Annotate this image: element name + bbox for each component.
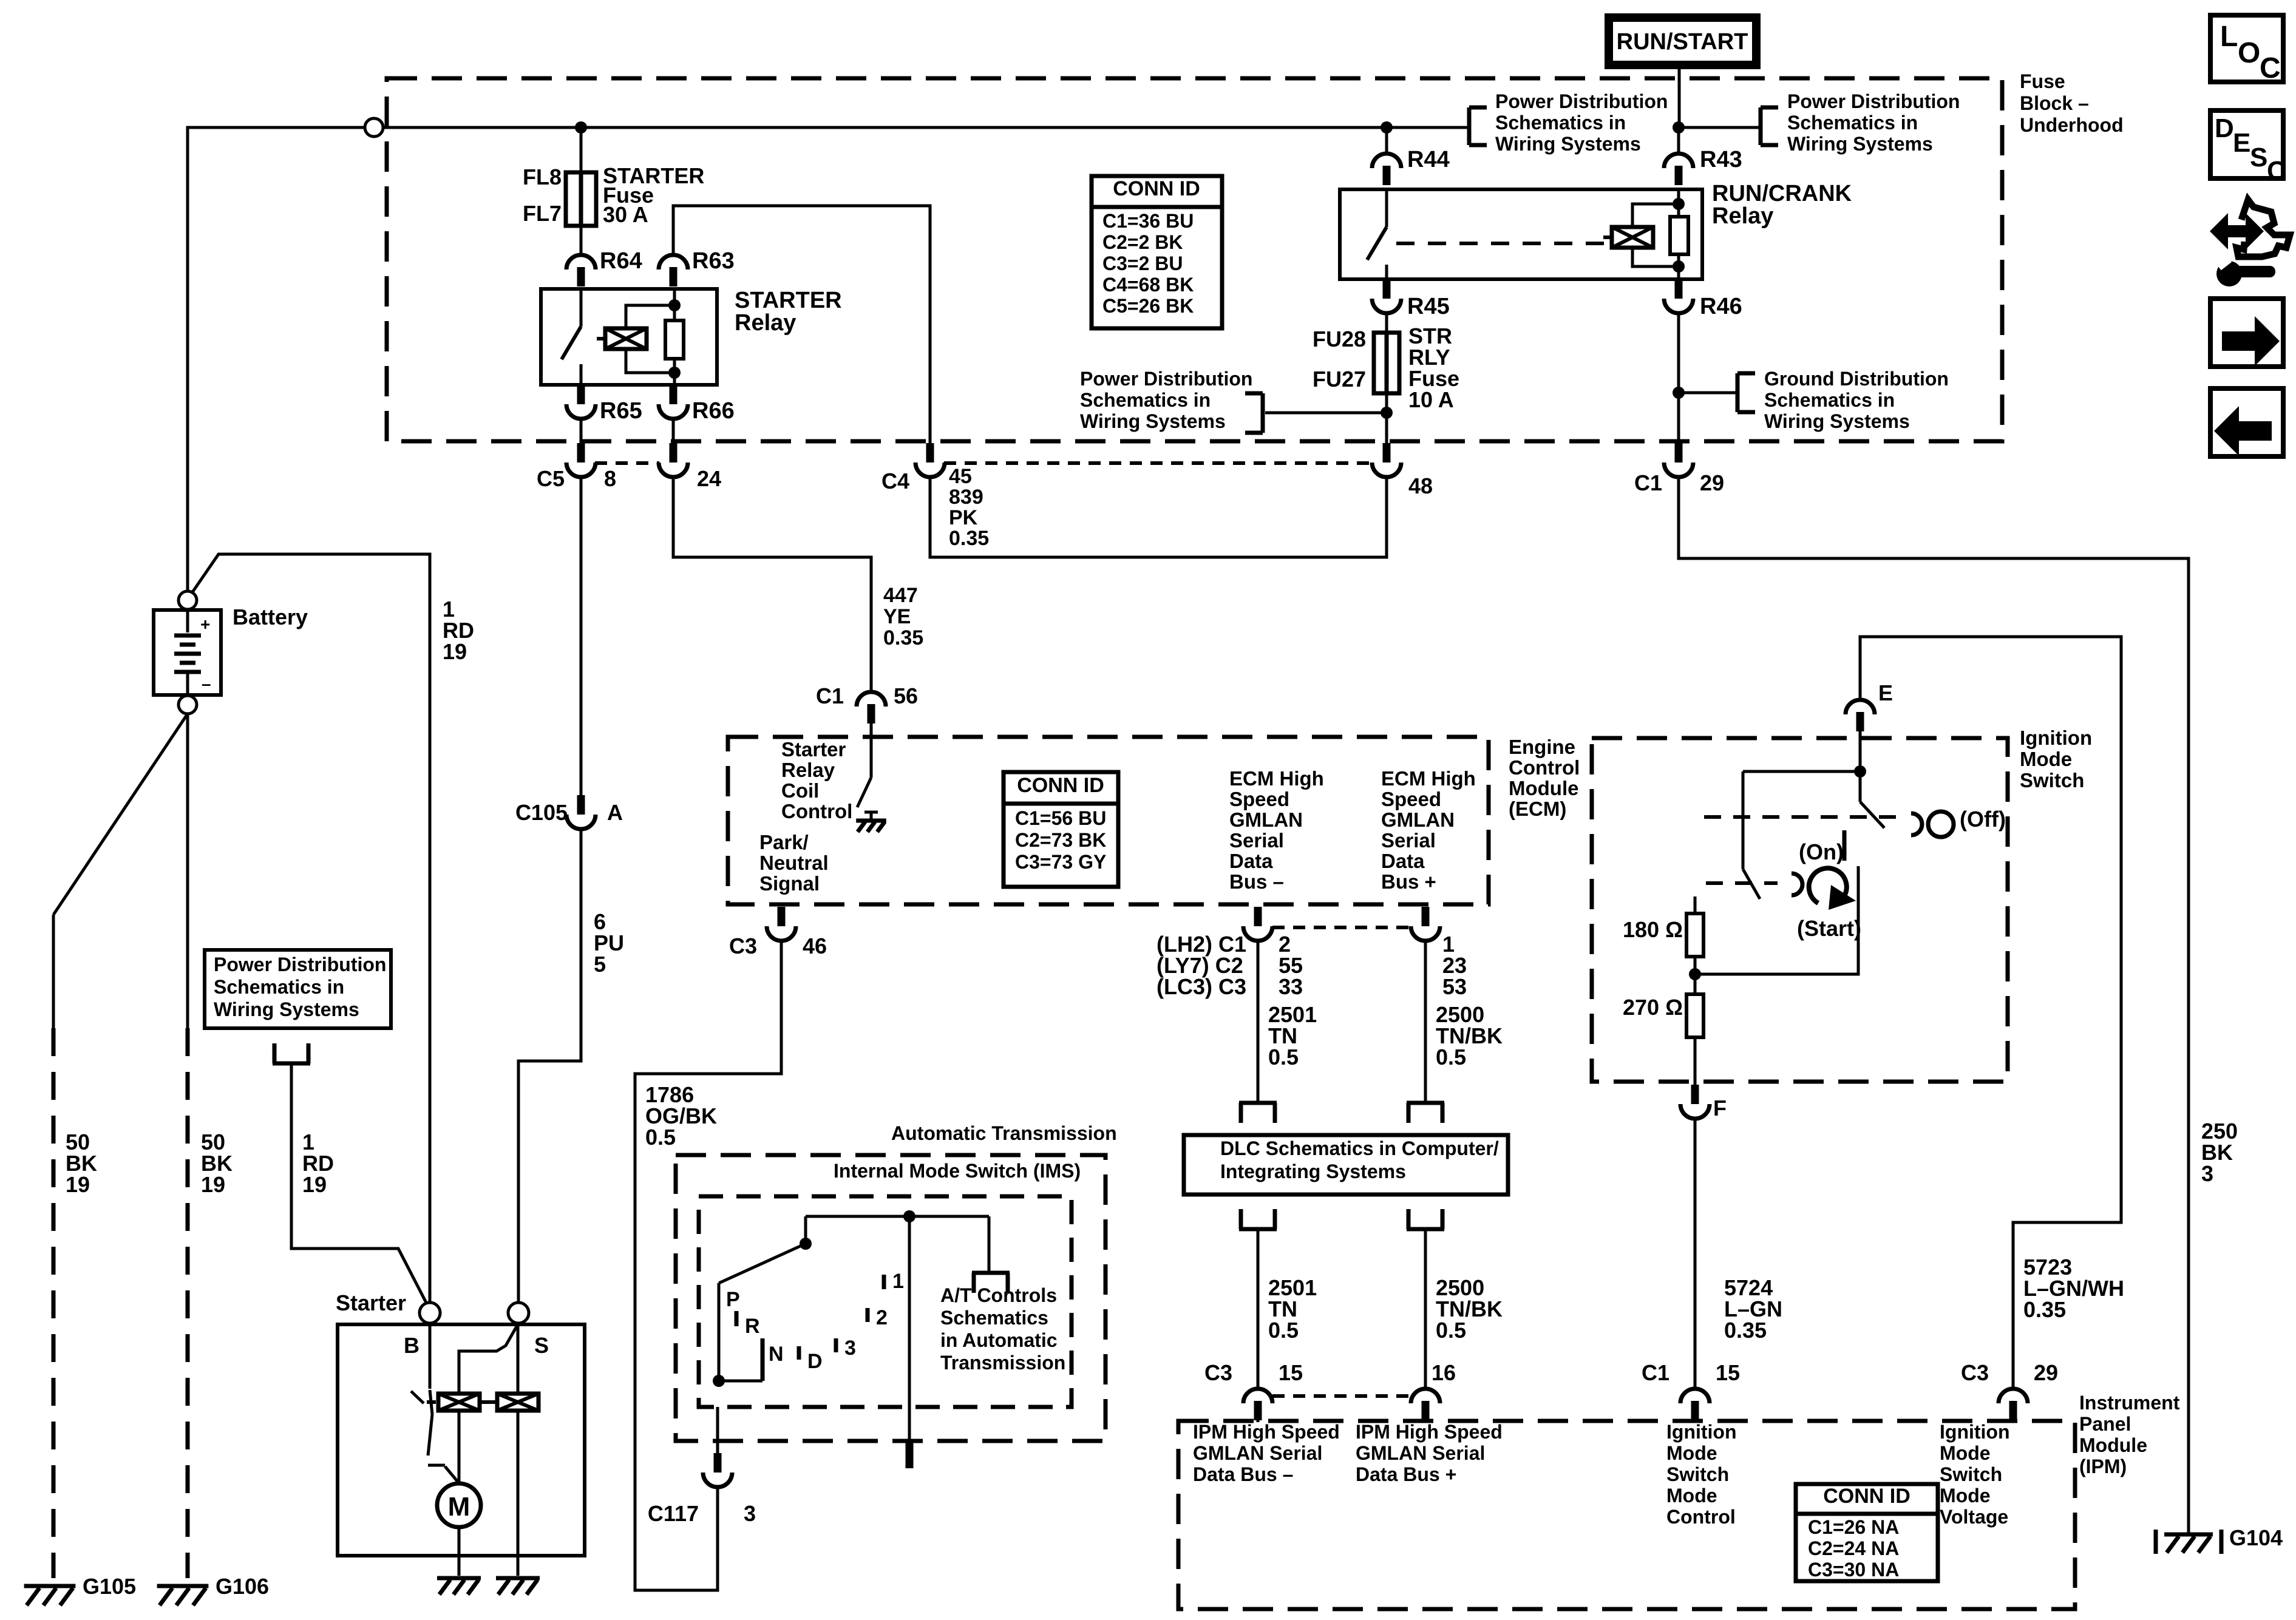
label FU27 [1313,367,1366,391]
icon vehicle outline [2237,200,2290,257]
svg-text:29: 29 [1700,470,1724,495]
svg-text:C105: C105 [515,800,568,825]
label C3 (IPM left) [1204,1360,1232,1385]
connector R45 [1372,279,1401,313]
label 3 (IMS) [844,1337,856,1360]
label (Off) [1960,807,2006,832]
label IPM High Speed GMLAN Serial Data Bus - [1193,1421,1340,1485]
connector F [1680,1085,1710,1119]
svg-text:C5=26 BK: C5=26 BK [1102,295,1194,317]
connector C1 pin 29 [1664,443,1693,477]
svg-text:Data Bus +: Data Bus + [1356,1463,1456,1485]
svg-text:Speed: Speed [1381,788,1441,810]
svg-text:C3=30 NA: C3=30 NA [1808,1559,1899,1581]
starter motor M [437,1411,481,1527]
svg-text:PK: PK [949,506,978,529]
battery terminal bottom [178,696,197,714]
svg-text:FL8: FL8 [523,164,562,189]
svg-text:Module: Module [2079,1434,2147,1456]
svg-text:RUN/START: RUN/START [1617,29,1748,55]
svg-text:Schematics in: Schematics in [1495,112,1626,134]
label FL8 [523,164,562,189]
svg-text:Control: Control [1666,1506,1736,1528]
label R43 [1700,147,1742,172]
label D [807,1350,823,1373]
svg-text:0.5: 0.5 [1436,1045,1466,1069]
relay K2 RUN/CRANK Relay box [1340,189,1702,279]
connector C3 pin 15 (IPM) [1243,1389,1272,1420]
svg-text:G105: G105 [83,1574,136,1599]
label C1 (fuse block) [1634,470,1662,495]
wire bus to FL8 [580,127,583,172]
fuse block - underhood dashed outline [387,78,2002,441]
svg-text:+: + [200,615,210,634]
IMS contact 3 [834,1338,838,1352]
wire FL8 to R64 [580,226,583,257]
CONN ID table (fuse block) [1092,176,1222,328]
svg-text:5: 5 [594,952,606,977]
run/crank relay switch [1367,189,1387,279]
label pin 46 [803,934,827,958]
run/crank relay actuation dashed [1396,242,1609,245]
svg-text:Schematics: Schematics [940,1307,1048,1329]
label ECM High Speed GMLAN Serial Data Bus + [1381,767,1476,893]
label STARTER Fuse 30 A [603,163,704,227]
svg-text:19: 19 [302,1172,327,1197]
battery cells [174,610,211,695]
svg-text:8: 8 [604,466,616,491]
wire 1 RD 19 (power distribution to starter B) [291,1063,427,1305]
label 250 BK 3 [2201,1119,2238,1186]
label 2 (IMS) [876,1306,888,1329]
ignition start blade [1743,869,1760,899]
svg-text:Wiring Systems: Wiring Systems [1495,133,1641,155]
label pin A [607,800,623,825]
svg-text:Wiring Systems: Wiring Systems [1080,410,1226,432]
svg-text:(LC3) C3: (LC3) C3 [1156,974,1246,999]
IPM dashed box [1178,1421,2075,1609]
svg-text:M: M [448,1492,470,1522]
ignition off blade [1860,771,1884,828]
connector link C5 [595,461,659,465]
starter solenoid pull-in winding [427,1394,480,1411]
label pin 16 [1432,1360,1456,1385]
svg-text:Schematics in: Schematics in [1080,389,1211,411]
svg-text:(Start): (Start) [1797,916,1861,941]
svg-text:Ground Distribution: Ground Distribution [1764,368,1949,390]
svg-text:Mode: Mode [1940,1442,1991,1464]
svg-text:GMLAN: GMLAN [1381,808,1455,831]
wire R46 down [1677,312,1680,445]
IMS contact D [797,1346,801,1360]
label IPM High Speed GMLAN Serial Data Bus + [1356,1421,1503,1485]
label C117 [648,1501,699,1526]
label C4 [881,469,909,493]
svg-text:C1: C1 [1642,1360,1669,1385]
svg-text:ECM High: ECM High [1381,767,1476,790]
svg-text:Power Distribution: Power Distribution [1787,90,1960,112]
label R [745,1315,760,1338]
label 6 PU 5 [594,909,624,977]
svg-text:(Off): (Off) [1960,807,2006,832]
note box Power Distribution Schematics in Wiring Systems (solid) [205,950,391,1028]
svg-text:Instrument: Instrument [2079,1392,2180,1414]
label 2501 TN 0.5 lower [1268,1275,1317,1343]
svg-text:33: 33 [1279,974,1303,999]
svg-text:0.35: 0.35 [883,626,923,649]
svg-text:CONN ID: CONN ID [1113,177,1200,200]
fuse FU28 STR RLY 10A [1374,333,1399,393]
svg-text:19: 19 [201,1172,225,1197]
wire 6 PU 5 lower [518,828,581,1302]
wire to A/T controls [988,1216,991,1273]
svg-text:N: N [769,1343,784,1366]
svg-text:Ignition: Ignition [1940,1421,2010,1443]
svg-text:Panel: Panel [2079,1413,2131,1435]
wire C1-56 into ECM [870,722,873,738]
connector C3 pin 16 (IPM) [1411,1389,1440,1420]
svg-text:3: 3 [844,1337,856,1360]
IMS contact R [735,1311,739,1326]
connector link C4-48 [944,461,1373,465]
label 50 BK 19 left [66,1130,97,1197]
svg-text:Wiring Systems: Wiring Systems [1787,133,1933,155]
wire start contact return [1695,866,1858,974]
svg-text:Speed: Speed [1229,788,1289,810]
svg-text:Power Distribution: Power Distribution [1080,368,1252,390]
svg-text:D: D [807,1350,823,1373]
svg-text:0.5: 0.5 [645,1125,676,1150]
resistor 270 ohm [1686,994,1703,1037]
svg-text:R65: R65 [600,398,642,424]
svg-text:Relay: Relay [781,759,835,781]
wire battery positive bus [188,127,1387,591]
svg-text:D: D [2215,114,2234,143]
wire 447 YE [673,476,871,694]
wire R45 to FU28 [1385,312,1388,333]
note bracket power distribution 2 [1679,107,1778,145]
label C3 (ECM) [729,934,757,958]
connector R44 [1372,154,1401,185]
svg-text:ECM High: ECM High [1229,767,1324,790]
svg-text:10 A: 10 A [1408,387,1454,412]
label R44 [1407,147,1450,172]
wire C3-15 into IPM [1257,1419,1260,1422]
wire RUN/START to bus [1678,65,1681,127]
svg-text:C1: C1 [1634,470,1662,495]
wire 2501 TN lower [1257,1229,1260,1391]
wire C3-16 into IPM [1424,1419,1427,1422]
label Starter Relay Coil Control [781,738,852,822]
wire battery negative to G106 [186,714,189,1578]
svg-text:IPM High Speed: IPM High Speed [1356,1421,1503,1443]
connector C3 pin 29 (IPM) [1999,1389,2028,1420]
label Park/Neutral Signal [759,831,829,895]
svg-text:RUN/CRANK: RUN/CRANK [1712,181,1852,206]
label S [534,1333,549,1358]
label pin 24 [697,466,721,491]
svg-text:Battery: Battery [233,605,308,629]
svg-text:Switch: Switch [1666,1463,1729,1485]
svg-text:C5: C5 [537,466,565,491]
label Ignition Mode Switch [2020,727,2092,791]
wire S to ground [517,1323,520,1576]
ignition off position circle [1928,812,1954,837]
svg-text:GMLAN Serial: GMLAN Serial [1193,1442,1322,1464]
node junction FU27/note [1381,407,1393,419]
off-page bracket DLC lower left [1239,1209,1277,1229]
svg-text:IPM High Speed: IPM High Speed [1193,1421,1340,1443]
label FL7 [523,201,562,226]
svg-text:C3: C3 [1961,1360,1989,1385]
label pin 3 (C117) [744,1501,756,1526]
svg-text:C3=73 GY: C3=73 GY [1015,851,1106,873]
svg-text:270 Ω: 270 Ω [1623,995,1683,1020]
svg-text:15: 15 [1279,1360,1303,1385]
ECM internal ground [856,812,886,832]
wire M to ground [458,1527,461,1576]
svg-text:19: 19 [66,1172,90,1197]
svg-text:A/T Controls: A/T Controls [940,1284,1057,1306]
svg-text:45: 45 [949,465,972,488]
icon arrow right box [2210,299,2283,367]
connector C117 pin 3 [703,1453,732,1487]
label pins 1 23 53 [1442,932,1467,999]
ground G106 [157,1586,209,1605]
svg-text:Internal Mode Switch (IMS): Internal Mode Switch (IMS) [834,1160,1081,1182]
connector R64 [566,255,596,286]
label Fuse Block - Underhood [2020,70,2124,136]
label pin 29 (IPM) [2034,1360,2058,1385]
label 1 RD 19 top [443,597,474,664]
connector C5 pin 24 [659,443,688,477]
ignition on contact bar [1843,830,1847,861]
svg-text:0.35: 0.35 [2023,1297,2066,1322]
wire 2500 TN/BK lower [1424,1229,1427,1391]
automatic transmission dashed box [676,1155,1106,1441]
label Automatic Transmission [891,1122,1117,1144]
svg-text:C117: C117 [648,1501,699,1526]
connector E [1846,700,1875,731]
svg-text:R43: R43 [1700,147,1742,172]
svg-text:P: P [726,1288,740,1311]
svg-text:46: 46 [803,934,827,958]
label RUN/CRANK Relay [1712,181,1852,229]
svg-text:(ECM): (ECM) [1509,798,1566,820]
svg-text:R46: R46 [1700,294,1742,319]
svg-text:(IPM): (IPM) [2079,1456,2127,1477]
svg-text:S: S [534,1333,549,1358]
connector C100 inline circle [365,118,383,137]
run/crank relay coil L2 [1603,198,1685,273]
note Power Distribution Schematics in Wiring Systems 2 [1787,90,1960,155]
RUN/START tag box [1609,18,1756,65]
svg-text:0.5: 0.5 [1436,1318,1466,1343]
IMS inner dashed box [699,1196,1072,1407]
label R63 [692,248,735,274]
label (LH2) C1 (LY7) C2 (LC3) C3 [1156,932,1246,999]
starter relay switch [562,289,581,385]
svg-text:G106: G106 [216,1574,269,1599]
svg-text:C1=56 BU: C1=56 BU [1015,807,1106,829]
starter relay resistor R [665,289,684,385]
svg-text:(On): (On) [1799,839,1844,864]
svg-text:FL7: FL7 [523,201,562,226]
connector R63 [659,255,688,286]
svg-text:0.5: 0.5 [1268,1318,1299,1343]
IMS contact 1 [882,1275,886,1289]
svg-text:R66: R66 [692,398,735,424]
svg-text:G104: G104 [2229,1525,2283,1550]
wire R65 to C5 [580,418,583,445]
label pin 15 (IPM) [1716,1360,1740,1385]
label 2501 TN 0.5 upper [1268,1002,1317,1069]
svg-text:C: C [2267,156,2286,186]
wire 1786 OG/BK [635,940,781,1590]
svg-text:Data Bus –: Data Bus – [1193,1463,1293,1485]
label G105 [83,1574,136,1599]
CONN ID table (ECM) [1004,772,1118,887]
label (On) [1799,839,1844,864]
label C1 (IPM) [1642,1360,1669,1385]
label 5723 L-GN/WH 0.35 [2023,1255,2124,1322]
label 45 839 PK 0.35 [949,465,989,550]
ignition off contact hook [1911,813,1922,835]
label STARTER Relay [735,288,842,336]
IMS contact 2 [866,1308,870,1322]
svg-text:Schematics in: Schematics in [214,976,344,998]
battery B1 box [154,610,221,695]
starter relay coil L1 [597,299,681,379]
note Power Distribution Schematics in Wiring Systems 1 [1495,90,1668,155]
off-page bracket DLC upper left [1239,1103,1277,1123]
connector R46 [1664,279,1693,313]
off-page bracket A/T controls [972,1273,1010,1293]
node junction bus/FL8 [575,121,587,134]
IMS common wire [806,1215,989,1218]
svg-text:Relay: Relay [1712,203,1773,229]
svg-text:48: 48 [1408,473,1433,498]
wire 5724 L-GN [1694,1117,1697,1391]
svg-text:53: 53 [1442,974,1467,999]
connector C3 pin 46 [767,907,796,941]
note Power Distribution Schematics in Wiring Systems 3 [1080,368,1252,432]
ignition off dashed throw [1704,815,1905,819]
svg-text:Underhood: Underhood [2020,114,2124,136]
label 1 RD 19 bottom [302,1130,334,1197]
svg-text:Starter: Starter [336,1290,406,1315]
node junction resistors [1689,957,1701,994]
connector R43 [1664,154,1693,185]
svg-text:180 Ω: 180 Ω [1623,917,1683,942]
svg-text:CONN ID: CONN ID [1017,774,1104,797]
svg-text:Control: Control [1509,756,1580,779]
label C1 (ECM) [816,683,844,708]
svg-text:Mode: Mode [1940,1485,1991,1506]
wire 2500 TN/BK upper [1424,940,1427,1103]
off-page bracket DLC lower right [1407,1209,1444,1229]
svg-text:DLC Schematics in Computer/: DLC Schematics in Computer/ [1220,1137,1499,1159]
icon wrench [2216,256,2275,286]
svg-text:1: 1 [892,1270,904,1293]
connector pin 48 [1372,443,1401,477]
svg-text:Module: Module [1509,777,1578,799]
svg-text:29: 29 [2034,1360,2058,1385]
starter motor box [338,1324,585,1556]
connector C4 pin 45 [915,443,945,477]
IMS sense wire stub [906,1216,914,1468]
connector link ECM C1 [1272,926,1410,929]
note bracket power distribution 3 [1245,393,1387,433]
label 447 YE 0.35 [883,584,923,649]
svg-text:C3=2 BU: C3=2 BU [1102,252,1183,274]
ground starter motor [437,1578,481,1595]
wire C1-15 into IPM [1694,1419,1697,1422]
node junction bus/R43 [1673,121,1685,134]
svg-text:Bus +: Bus + [1381,870,1436,893]
svg-text:in Automatic: in Automatic [940,1329,1058,1351]
svg-text:Coil: Coil [781,779,819,802]
wire bus to R44 [1385,127,1388,155]
starter solenoid hold-in winding [481,1394,538,1411]
label Starter [336,1290,406,1315]
label Ignition Mode Switch Mode Control [1666,1421,1737,1528]
svg-text:Automatic Transmission: Automatic Transmission [891,1122,1117,1144]
svg-text:A: A [607,800,623,825]
connector R65 [566,385,596,419]
wire 250 BK 3 [1679,476,2189,1530]
svg-text:3: 3 [744,1501,756,1526]
connector ECM data bus - pin [1243,907,1272,941]
label 1786 OG/BK 0.5 [645,1082,717,1150]
label C5 [537,466,565,491]
svg-text:R: R [745,1315,760,1338]
fusible link FL8 STARTER Fuse 30A [566,172,596,226]
svg-text:24: 24 [697,466,721,491]
svg-text:0.5: 0.5 [1268,1045,1299,1069]
svg-text:Neutral: Neutral [759,852,829,874]
note bracket ground distribution [1679,373,1755,412]
label 180 ohm [1623,917,1683,942]
svg-text:Park/: Park/ [759,831,809,853]
svg-text:F: F [1713,1096,1727,1120]
wire 270 ohm to F [1694,1037,1697,1086]
label Internal Mode Switch (IMS) [834,1160,1081,1182]
ignition mode switch dashed box [1592,738,2008,1082]
connector C1 pin 56 [857,692,886,724]
node junction bus/R44 [1381,121,1393,134]
svg-text:R63: R63 [692,248,735,274]
svg-text:30 A: 30 A [603,202,648,227]
battery terminal top [178,591,197,609]
svg-text:Power Distribution: Power Distribution [214,954,386,975]
label 50 BK 19 right [201,1130,233,1197]
label N [769,1343,784,1366]
svg-text:3: 3 [2201,1161,2213,1186]
svg-text:2: 2 [876,1306,888,1329]
ECM coil control switch [857,738,878,812]
icon vehicle double arrow [2210,213,2264,249]
svg-text:C1=36 BU: C1=36 BU [1102,210,1194,232]
label E [1878,680,1893,705]
svg-text:Voltage: Voltage [1940,1506,2008,1528]
svg-text:Data: Data [1229,850,1273,872]
note box DLC Schematics [1184,1135,1508,1195]
svg-text:Relay: Relay [735,310,796,336]
svg-text:O: O [2238,37,2260,69]
svg-text:B: B [404,1333,419,1358]
label (Start) [1797,916,1861,941]
